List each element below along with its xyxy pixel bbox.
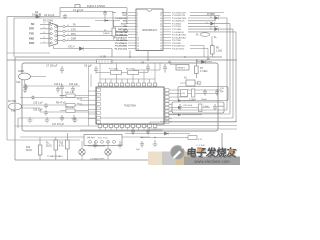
- ground G4: [93, 141, 98, 148]
- svg-text:VCC: VCC: [122, 15, 127, 17]
- wire crystal top rail: [60, 8, 128, 27]
- diode D7: [164, 132, 168, 135]
- svg-text:C13 0.1: C13 0.1: [54, 84, 63, 86]
- wire connector ground drop: [54, 46, 71, 49]
- connector pins left column: [50, 23, 57, 44]
- wire main bus lower: [7, 59, 237, 61]
- wires U3 bottom pins: [100, 124, 155, 130]
- wire P3.4 wrap: [190, 48, 208, 60]
- U2 pin numbers: [137, 12, 162, 50]
- op-amp U3 central IC body: [96, 87, 164, 124]
- svg-text:TEST: TEST: [121, 12, 127, 14]
- svg-text:6: 6: [137, 26, 138, 28]
- capacitor C7: [60, 66, 64, 74]
- svg-text:12: 12: [137, 43, 139, 45]
- wire RI to MCU: [65, 26, 90, 28]
- svg-text:FQD1 4 17MHz: FQD1 4 17MHz: [87, 4, 106, 8]
- svg-text:VSS: VSS: [123, 21, 128, 23]
- svg-text:P1.7/TA2/TDO: P1.7/TA2/TDO: [172, 11, 186, 14]
- svg-text:P1.5/TA0/TMS: P1.5/TA0/TMS: [172, 17, 187, 20]
- wire main bus upper: [15, 56, 222, 58]
- svg-text:+5V: +5V: [181, 93, 185, 95]
- svg-text:P2.3/CA0/TA1: P2.3/CA0/TA1: [172, 36, 187, 39]
- wire gnd stub left: [7, 52, 50, 54]
- svg-text:1.74kΩ: 1.74kΩ: [200, 71, 208, 73]
- svg-text:DCD: DCD: [29, 42, 34, 45]
- junction dots bottom rows: [132, 133, 133, 134]
- junction dots on bus: [129, 56, 131, 58]
- U3 right pin boxes: [165, 89, 169, 124]
- capacitor C25: [140, 141, 144, 148]
- svg-text:10: 10: [137, 37, 139, 39]
- watermark tan block: [176, 152, 196, 166]
- svg-text:R15: R15: [59, 143, 64, 145]
- wire loop return 3: [18, 118, 233, 128]
- wire CTS to MCU: [65, 30, 128, 32]
- svg-text:C4 10 pF: C4 10 pF: [44, 14, 55, 17]
- svg-text:TXD: TXD: [29, 33, 34, 36]
- wire stack c: [150, 128, 237, 130]
- capacitor C12: [24, 84, 28, 91]
- svg-text:MSP430F123: MSP430F123: [142, 29, 157, 32]
- ground G1: [28, 117, 33, 123]
- svg-text:8: 8: [137, 32, 138, 34]
- svg-text:R11 3.3k: R11 3.3k: [65, 107, 74, 109]
- wire bottom rail: [7, 137, 150, 140]
- svg-text:P1.0/TACLK: P1.0/TACLK: [172, 31, 185, 34]
- svg-text:V1 3MXQTVPt: V1 3MXQTVPt: [90, 158, 105, 161]
- connector P2 DB9 shell: [49, 22, 58, 46]
- wire loop return 4: [15, 122, 236, 126]
- svg-text:25: 25: [160, 21, 162, 23]
- wire diode to crystal node: [41, 16, 60, 18]
- svg-text:1.74kΩ: 1.74kΩ: [189, 99, 196, 101]
- svg-text:P3.3/UCLK0: P3.3/UCLK0: [115, 48, 128, 50]
- wire P1.6 to diode row: [188, 18, 227, 21]
- component +5V box: [181, 90, 188, 97]
- svg-text:100kΩ: 100kΩ: [103, 33, 110, 35]
- wire top pins rail: [100, 78, 155, 80]
- svg-text:32.768k: 32.768k: [8, 101, 17, 103]
- svg-text:R₁: R₁: [196, 35, 199, 37]
- wires U3 left pins: [88, 91, 96, 119]
- svg-text:P3.0/STE0: P3.0/STE0: [116, 40, 127, 42]
- svg-text:DTR: DTR: [29, 28, 34, 31]
- watermark gray block: [162, 152, 176, 166]
- svg-text:RTS: RTS: [71, 33, 76, 36]
- resistor R14: [38, 145, 42, 155]
- wire loop return 1: [170, 109, 227, 111]
- svg-text:C16 1 μF: C16 1 μF: [33, 110, 43, 112]
- U3 left pin boxes: [97, 89, 101, 124]
- capacitor C16: [44, 110, 48, 116]
- ground G2: [45, 117, 50, 123]
- diode D6: [196, 61, 212, 63]
- svg-text:P3.2/SOMI0: P3.2/SOMI0: [115, 46, 128, 48]
- svg-text:NC: NC: [31, 23, 35, 26]
- watermark orange accent: [197, 147, 202, 152]
- svg-text:P1.2/TA1: P1.2/TA1: [172, 25, 182, 28]
- svg-text:3: 3: [137, 18, 138, 20]
- ground Y1: [23, 90, 27, 93]
- ground G6: [153, 140, 158, 147]
- connector pins right column: [55, 26, 57, 28]
- component reset box: [176, 65, 189, 71]
- wire Y3 to IC: [22, 105, 97, 112]
- wire loop return 2: [168, 113, 230, 115]
- capacitor C8: [94, 66, 98, 74]
- svg-text:R₁₀: R₁₀: [104, 30, 107, 32]
- svg-text:28: 28: [160, 12, 162, 14]
- svg-text:P3.4/UTXD0: P3.4/UTXD0: [172, 48, 185, 50]
- oscillator Y1: [19, 73, 31, 80]
- wire left outer vertical: [6, 17, 8, 140]
- svg-text:9: 9: [137, 35, 138, 37]
- svg-text:PS I1: PS I1: [77, 103, 83, 105]
- junction node crystal right: [104, 11, 106, 13]
- wire RTS to MCU: [65, 35, 128, 37]
- wire top-left horizontal to diode: [7, 16, 35, 18]
- resistor R8: [186, 80, 195, 86]
- svg-text:R1 3.3kΩ: R1 3.3kΩ: [109, 69, 118, 71]
- resistor R16: [188, 136, 197, 140]
- wire U2 to bus risers: [130, 51, 148, 61]
- wire bus vertical 3: [232, 29, 234, 118]
- wire bottom rail under U3: [80, 129, 160, 131]
- wire P3.5 wrap: [190, 46, 204, 58]
- crystal Y2: [75, 5, 80, 8]
- svg-text:P3.1/SIMO0: P3.1/SIMO0: [115, 43, 128, 45]
- wire XOUT drop: [127, 8, 128, 24]
- capacitor C26 with ground: [60, 84, 65, 99]
- wire crystal lower rail: [60, 11, 113, 13]
- svg-text:17: 17: [160, 43, 162, 45]
- svg-text:24: 24: [160, 24, 162, 26]
- junction node crystal left: [77, 11, 79, 13]
- watermark beige block 1: [148, 152, 162, 166]
- svg-text:RI: RI: [73, 24, 76, 27]
- U4 inner circles: [89, 140, 116, 143]
- capacitor C10: [163, 64, 167, 73]
- svg-text:P3.6/TA2: P3.6/TA2: [172, 42, 182, 45]
- resistor R18: [128, 71, 139, 75]
- svg-text:R 5558: R 5558: [207, 13, 215, 16]
- op-amp U2 MSP430F123 IC body: [136, 9, 163, 51]
- svg-text:GND1: GND1: [18, 71, 25, 73]
- svg-text:R₂₀: R₂₀: [46, 143, 50, 145]
- svg-text:23: 23: [160, 26, 162, 28]
- resistor R11: [66, 109, 75, 112]
- ground G5: [118, 141, 123, 148]
- svg-text:R9 47 kΩ: R9 47 kΩ: [56, 103, 66, 105]
- watermark logo circle: [171, 146, 185, 160]
- svg-text:2: 2: [137, 15, 138, 17]
- wire left inner vertical: [15, 57, 222, 160]
- wire DSR to MCU: [65, 39, 128, 41]
- svg-text:16: 16: [160, 46, 162, 48]
- resistor R20: [54, 140, 58, 150]
- capacitor C15: [44, 103, 48, 109]
- svg-text:R14: R14: [26, 147, 31, 149]
- svg-text:TI 3MF12F3APt: TI 3MF12F3APt: [47, 155, 63, 158]
- svg-text:1.1kΩ: 1.1kΩ: [216, 51, 222, 53]
- svg-text:C14 1μF: C14 1μF: [69, 84, 78, 86]
- wire with arrow to P2.5: [95, 20, 120, 22]
- diode D4: [211, 22, 215, 26]
- wires U3 right pins: [164, 90, 172, 122]
- svg-text:R₅: R₅: [214, 37, 217, 39]
- svg-text:C7 100 μF: C7 100 μF: [46, 65, 58, 68]
- svg-text:1: 1: [137, 12, 138, 14]
- svg-text:510Ω: 510Ω: [26, 150, 32, 152]
- svg-text:27: 27: [160, 15, 162, 17]
- resistor R13: [199, 104, 202, 112]
- svg-text:P2.1/INCLK: P2.1/INCLK: [115, 35, 127, 37]
- svg-text:22: 22: [160, 29, 162, 31]
- wire stack a: [160, 121, 237, 123]
- svg-text:14: 14: [137, 48, 139, 50]
- ground G3: [73, 117, 78, 123]
- svg-text:1N4148: 1N4148: [32, 13, 42, 17]
- wire TEST pin: [112, 12, 116, 14]
- svg-text:26: 26: [160, 18, 162, 20]
- svg-text:P6.3T: P6.3T: [77, 99, 83, 101]
- svg-text:U.1B: U.1B: [100, 54, 106, 58]
- svg-text:19: 19: [160, 37, 162, 39]
- connector U1B header: [97, 60, 113, 63]
- capacitor C23: [146, 128, 150, 135]
- wire stack b: [155, 124, 237, 126]
- svg-text:100nF: 100nF: [201, 99, 208, 101]
- svg-text:11: 11: [137, 40, 139, 42]
- capacitor C13: [56, 86, 60, 93]
- diode D3: [215, 16, 219, 20]
- capacitor C18: [203, 89, 207, 96]
- svg-text:P1.1 P1.0: P1.1 P1.0: [98, 138, 108, 140]
- capacitor C4: [63, 14, 67, 19]
- ground G7: [72, 115, 77, 122]
- U3 top pin number boxes: [98, 83, 157, 86]
- capacitor C19: [215, 89, 219, 96]
- svg-text:XX1.4: XX1.4: [68, 46, 75, 49]
- module box supply row 1: [178, 87, 228, 101]
- node NC circle on P2.5: [125, 29, 128, 32]
- svg-text:R5 3.3kΩ: R5 3.3kΩ: [126, 69, 135, 71]
- svg-text:P2.4/CA1/TA2: P2.4/CA1/TA2: [172, 34, 187, 37]
- capacitor C11 below Y1: [23, 84, 27, 91]
- wire stubs left of connector: [40, 24, 128, 43]
- oscillator Y3 32.768kHz: [9, 103, 22, 110]
- wire XIN drop: [113, 12, 128, 27]
- watermark pen glyph: [173, 151, 181, 159]
- label D1 value: [32, 10, 42, 17]
- capacitor C22: [131, 128, 135, 135]
- svg-text:P3.7/TA1: P3.7/TA1: [172, 39, 182, 42]
- resistor R7: [195, 66, 199, 74]
- diodes on U3 right rows: [172, 99, 182, 116]
- capacitor C9: [146, 64, 150, 73]
- resistor R12: [192, 89, 195, 97]
- wire lower-left row: [20, 97, 88, 99]
- svg-text:C15 1 μF: C15 1 μF: [33, 103, 43, 105]
- svg-text:P1.3/TA2: P1.3/TA2: [172, 23, 182, 26]
- U2 right pin net labels: [172, 11, 187, 50]
- capacitor C6: [103, 12, 107, 17]
- resistor R10: [66, 94, 75, 97]
- resistor R19: [112, 28, 116, 36]
- resistor R17: [111, 71, 122, 75]
- U2 pin stubs: [128, 13, 171, 49]
- wire P1.7 to diode row: [190, 13, 224, 16]
- module box supply row 2: [172, 102, 224, 113]
- capacitor C27 on row: [32, 96, 35, 100]
- wire P1.5 to diode row: [188, 24, 230, 27]
- svg-text:RXD: RXD: [29, 37, 34, 40]
- wire caps rail: [25, 84, 80, 87]
- svg-text:P2.2/CAOUT: P2.2/CAOUT: [114, 36, 128, 39]
- svg-text:100nF: 100nF: [218, 106, 225, 108]
- capacitor C17 with label 470uF: [60, 115, 64, 122]
- component U4 driver box: [84, 135, 122, 146]
- labels left pins: [29, 23, 76, 45]
- watermark chinese text: [186, 146, 238, 160]
- svg-text:DSR: DSR: [71, 37, 76, 40]
- svg-text:P1.1/TA0: P1.1/TA0: [172, 28, 182, 31]
- svg-text:1.6kΩ: 1.6kΩ: [203, 106, 209, 108]
- connector open pins right: [63, 25, 65, 41]
- capacitor C20: [178, 104, 182, 111]
- svg-text:XIN: XIN: [123, 26, 127, 28]
- module box U1 analog section: [22, 63, 218, 131]
- wire risers U3 top: [100, 63, 160, 79]
- svg-text:CTS: CTS: [71, 28, 76, 31]
- wire U3 left row extensions: [60, 96, 88, 111]
- svg-text:C20 10nF: C20 10nF: [183, 105, 193, 107]
- svg-text:C12: C12: [16, 82, 21, 84]
- svg-text:510Ω: 510Ω: [46, 146, 52, 148]
- resistor R5: [211, 46, 215, 55]
- wire bus vertical 2: [229, 24, 231, 114]
- watermark banner: [184, 157, 240, 166]
- wire bus vertical 4: [235, 32, 237, 122]
- U2 left pin net labels: [114, 12, 128, 50]
- svg-text:5: 5: [137, 24, 138, 26]
- svg-text:U4 4×4: U4 4×4: [87, 137, 95, 140]
- wires U3 top pins up: [100, 79, 155, 83]
- capacitor C14: [71, 86, 75, 93]
- svg-text:P1.6/TA1/TDI: P1.6/TA1/TDI: [172, 14, 185, 17]
- svg-text:XOUT: XOUT: [121, 24, 128, 26]
- diode D2: [70, 47, 112, 57]
- resistor R15: [66, 140, 70, 149]
- svg-text:C₂ 1.1kΩ: C₂ 1.1kΩ: [196, 145, 205, 147]
- svg-text:20: 20: [160, 35, 162, 37]
- svg-text:13: 13: [137, 46, 139, 48]
- svg-text:RESET: RESET: [178, 68, 186, 70]
- svg-text:P1.6 (MAX)4.19M: P1.6 (MAX)4.19M: [88, 145, 106, 148]
- svg-text:18: 18: [160, 40, 162, 42]
- lamp X1: [79, 149, 85, 155]
- wire stubs right of connector: [57, 27, 63, 41]
- wire bus vertical 1: [226, 18, 228, 110]
- diode D1: [35, 15, 41, 19]
- svg-text:15: 15: [160, 48, 162, 50]
- svg-text:4: 4: [137, 21, 138, 23]
- svg-text:R10 3.3k: R10 3.3k: [65, 92, 75, 94]
- svg-text:21: 21: [160, 32, 162, 34]
- svg-text:7: 7: [137, 29, 138, 31]
- wire verticals left of U3: [89, 66, 92, 126]
- svg-text:TMS3705A: TMS3705A: [124, 105, 136, 108]
- U3 bottom pin boxes: [98, 125, 157, 128]
- svg-text:P1.4/SMCLK: P1.4/SMCLK: [172, 21, 185, 23]
- diode D5: [215, 27, 219, 31]
- svg-text:C8 1μF: C8 1μF: [84, 65, 92, 68]
- svg-text:P3.5/URXD0: P3.5/URXD0: [172, 46, 185, 48]
- capacitor C21: [213, 104, 217, 111]
- node ellipse A: [200, 33, 210, 37]
- wire mid bottom rows: [125, 134, 190, 138]
- wire VCC long to left: [14, 18, 128, 57]
- wire rows U3 right extension: [172, 90, 222, 115]
- wire resistor row: [96, 72, 148, 74]
- lamp X2: [105, 149, 111, 155]
